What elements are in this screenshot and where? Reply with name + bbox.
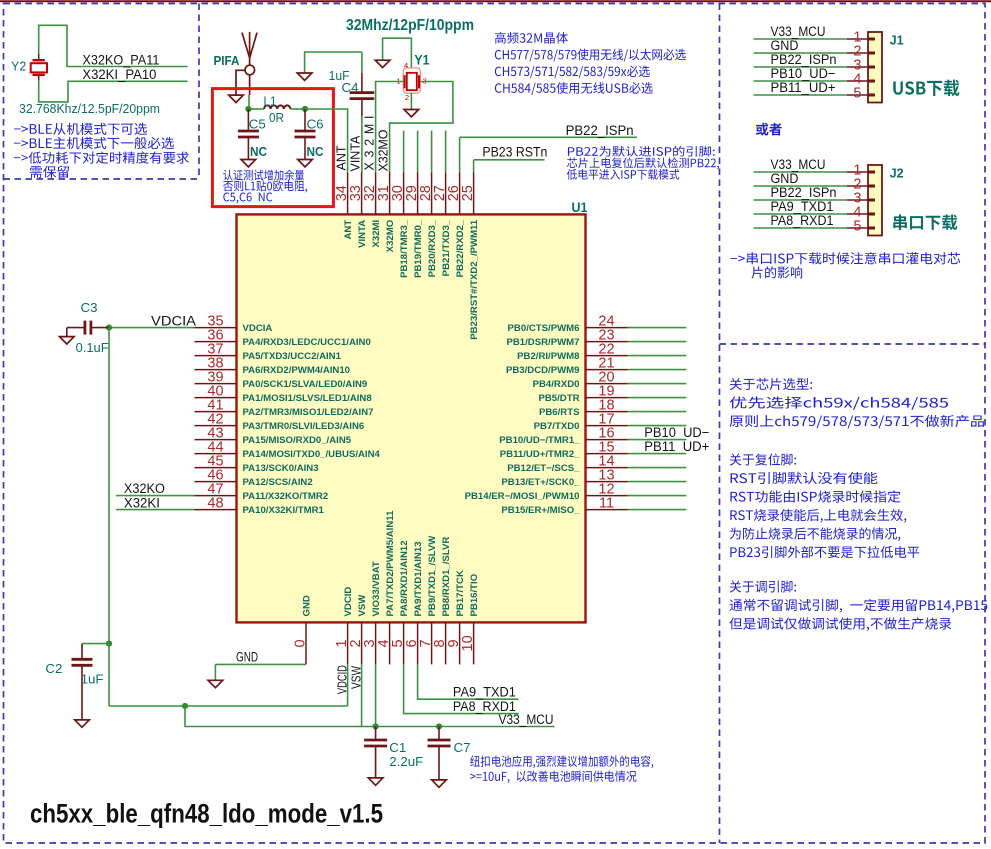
- svg-text:NC: NC: [250, 144, 268, 159]
- capacitor C3: [67, 327, 85, 329]
- wire stub pin 27: [445, 131, 447, 173]
- pin 36 PA4/RXD3/LEDC/UCC1/AIN0: [195, 341, 237, 343]
- pin 7 PB9/TXD1_/SLVW: [431, 622, 433, 664]
- svg-text:C3: C3: [81, 300, 98, 315]
- pin 5 J2 PA8_RXD1: [847, 219, 875, 235]
- pin 27 PB21/TXD3_: [445, 172, 447, 214]
- svg-text:PA11/X32KO/TMR2: PA11/X32KO/TMR2: [243, 491, 329, 502]
- wire to C2: [82, 643, 109, 645]
- wire X32KI: [116, 509, 194, 511]
- svg-text:VSW: VSW: [348, 665, 363, 689]
- svg-text:PA8_RXD1: PA8_RXD1: [453, 699, 516, 714]
- svg-text:PB1/DSR/PWM7: PB1/DSR/PWM7: [506, 337, 579, 348]
- svg-text:VSW: VSW: [357, 594, 368, 617]
- svg-text:X32KO: X32KO: [124, 481, 165, 496]
- connector J2: [868, 165, 882, 236]
- svg-text:U1: U1: [572, 200, 588, 215]
- svg-text:VINTA: VINTA: [348, 135, 362, 172]
- svg-text:PA9_TXD1: PA9_TXD1: [453, 685, 516, 700]
- wire pin 14: [628, 467, 687, 469]
- wire VINTA: [361, 116, 363, 172]
- note chip selection line5: [731, 472, 878, 484]
- wire pin 23: [628, 341, 687, 343]
- svg-text:PB3/DCD/PWM9: PB3/DCD/PWM9: [506, 365, 580, 376]
- svg-text:J2: J2: [890, 165, 904, 180]
- svg-text:PB9/TXD1_/SLVW: PB9/TXD1_/SLVW: [427, 535, 438, 617]
- svg-text:11: 11: [599, 495, 614, 511]
- pin 19 PB5/DTR: [586, 397, 628, 399]
- svg-text:PB11/UD+/TMR2_: PB11/UD+/TMR2_: [500, 449, 580, 460]
- svg-text:PA4/RXD3/LEDC/UCC1/AIN0: PA4/RXD3/LEDC/UCC1/AIN0: [243, 337, 371, 348]
- pin 4 J2 PA9_TXD1: [847, 205, 875, 221]
- label USB download: [893, 80, 959, 97]
- svg-text:VDCID: VDCID: [343, 587, 354, 617]
- ground Y1 top: [375, 60, 390, 67]
- capacitor C2: [81, 644, 83, 660]
- wire pin 11: [628, 509, 687, 511]
- wire stub pin 29: [417, 131, 419, 173]
- note chip selection line11: [730, 599, 988, 613]
- svg-text:ch5xx_ble_qfn48_ldo_mode_v1.5: ch5xx_ble_qfn48_ldo_mode_v1.5: [30, 799, 383, 829]
- svg-text:PA15/MISO/RXD0_/AIN5: PA15/MISO/RXD0_/AIN5: [243, 435, 352, 446]
- wire J1 PB22_ISPn: [754, 66, 847, 68]
- svg-text:C5: C5: [249, 117, 266, 132]
- svg-text:PIFA: PIFA: [214, 54, 240, 68]
- svg-text:GND: GND: [771, 171, 799, 186]
- pin 0 GND: [305, 622, 307, 664]
- net label V33_MCU (J2): [771, 157, 826, 172]
- wire X32MO: [390, 82, 453, 173]
- svg-text:PA12/SCS/AIN2: PA12/SCS/AIN2: [243, 477, 313, 488]
- right column dashed divider: [719, 4, 721, 844]
- wire pin 15: [628, 453, 687, 455]
- svg-text:PB14/ER−/MOSI_/PWM10: PB14/ER−/MOSI_/PWM10: [465, 491, 580, 502]
- wire pin 18: [628, 411, 687, 413]
- node antenna junction: [245, 106, 251, 112]
- capacitor C5: [247, 109, 249, 131]
- note BLE modes line4: [30, 166, 69, 178]
- capacitor C1: [375, 727, 377, 741]
- svg-text:0R: 0R: [269, 110, 284, 125]
- wire pin 13: [628, 481, 687, 483]
- connector J1: [868, 32, 882, 103]
- svg-text:PA9_TXD1: PA9_TXD1: [771, 199, 834, 214]
- svg-text:VDCID: VDCID: [334, 665, 349, 694]
- note chip selection line4: [730, 453, 796, 465]
- svg-text:PB20/RXD3_: PB20/RXD3_: [427, 219, 438, 277]
- pin 28 PB20/RXD3_: [431, 172, 433, 214]
- svg-text:X32KI_PA10: X32KI_PA10: [82, 67, 156, 82]
- svg-text:PB6/RTS: PB6/RTS: [539, 407, 580, 418]
- ground C5: [241, 160, 256, 167]
- note cert test line1: [223, 169, 304, 180]
- wire J1 PB10_UD−: [754, 80, 847, 82]
- svg-text:X32MI: X32MI: [362, 116, 376, 171]
- svg-text:J1: J1: [890, 32, 904, 47]
- wire pin 12: [628, 495, 687, 497]
- svg-text:PB4/RXD0: PB4/RXD0: [533, 379, 580, 390]
- svg-text:PB13/ET+/SCK0_: PB13/ET+/SCK0_: [501, 477, 580, 488]
- note cert test line3: [223, 192, 272, 203]
- svg-text:5: 5: [853, 219, 861, 235]
- note 32M crystal line1: [495, 32, 568, 44]
- svg-text:10: 10: [460, 635, 476, 651]
- crystal Y1: [403, 68, 420, 93]
- svg-text:GND: GND: [771, 38, 799, 53]
- note ISP pin line2: [567, 157, 719, 169]
- pin 34 ANT: [347, 172, 349, 214]
- wire J1 PB11_UD+: [754, 94, 847, 96]
- pin 38 PA6/RXD2/PWM4/AIN10: [195, 369, 237, 371]
- capacitor C7: [438, 727, 440, 741]
- right column dashed horizontal divider: [720, 343, 986, 345]
- pin 2 VSW: [361, 622, 363, 664]
- wire pin 24: [628, 327, 687, 329]
- wire VDC rail vertical: [108, 328, 110, 706]
- pin 3 VIO33/VBAT: [375, 622, 377, 664]
- note battery line2: [470, 771, 636, 784]
- svg-text:X32KI: X32KI: [124, 495, 160, 510]
- svg-text:C1: C1: [389, 740, 406, 755]
- note chip selection line1: [730, 378, 812, 390]
- svg-text:PA0/SCK1/SLVA/LED0/AIN9: PA0/SCK1/SLVA/LED0/AIN9: [243, 379, 368, 390]
- wire pin 19: [628, 397, 687, 399]
- pin 37 PA5/TXD3/UCC2/AIN1: [195, 355, 237, 357]
- svg-text:PB17/TCK: PB17/TCK: [455, 570, 466, 616]
- svg-text:PA1/MOSI1/SLVS/LED1/AIN8: PA1/MOSI1/SLVS/LED1/AIN8: [243, 393, 373, 404]
- emphasis box: [212, 89, 333, 207]
- wire J1 GND: [754, 52, 847, 54]
- wire stub pin 30: [403, 131, 405, 173]
- note 32M crystal line3: [495, 65, 650, 78]
- svg-text:2: 2: [405, 93, 409, 102]
- pin 48 PA10/X32KI/TMR1: [195, 509, 237, 511]
- svg-text:X32MO: X32MO: [385, 219, 396, 252]
- svg-text:ANT: ANT: [334, 145, 348, 170]
- svg-text:PA5/TXD3/UCC2/AIN1: PA5/TXD3/UCC2/AIN1: [243, 351, 342, 362]
- capacitor C6: [304, 109, 306, 131]
- svg-text:VDCIA: VDCIA: [243, 323, 273, 334]
- ground C2: [75, 720, 90, 727]
- wire PB23 RSTn: [473, 160, 475, 173]
- wire VDCID rail: [109, 705, 348, 707]
- svg-text:PB22_ISPn: PB22_ISPn: [771, 52, 837, 67]
- pin 22 PB2/RI/PWM8: [586, 355, 628, 357]
- svg-text:GND: GND: [301, 595, 312, 616]
- svg-text:V33_MCU: V33_MCU: [771, 157, 826, 172]
- pin 16 PB10/UD−/TMR1_: [586, 439, 628, 441]
- note chip selection line3: [730, 415, 984, 429]
- pin 30 PB18/TMR3_: [403, 172, 405, 214]
- svg-text:PB11_UD+: PB11_UD+: [771, 80, 836, 95]
- svg-text:PA8/RXD1/AIN12: PA8/RXD1/AIN12: [399, 540, 410, 616]
- pin 13 PB13/ET+/SCK0_: [586, 481, 628, 483]
- net label PB11_UD+ (J1): [771, 80, 836, 95]
- svg-text:PA10/X32KI/TMR1: PA10/X32KI/TMR1: [243, 505, 325, 516]
- svg-text:C4: C4: [342, 80, 359, 95]
- wire X32MI: [376, 82, 404, 173]
- pin 42 PA3/TMR0/SLVI/LED3/AIN6: [195, 425, 237, 427]
- wire J2 PA9_TXD1: [754, 213, 847, 215]
- svg-text:PA3/TMR0/SLVI/LED3/AIN6: PA3/TMR0/SLVI/LED3/AIN6: [243, 421, 365, 432]
- pin 3 J2 PB22_ISPn: [847, 191, 875, 207]
- svg-text:NC: NC: [307, 144, 325, 159]
- net label PB10_UD− (J1): [771, 66, 836, 81]
- svg-text:PB22_ISPn: PB22_ISPn: [566, 123, 634, 138]
- svg-text:L1: L1: [264, 93, 277, 108]
- pin 41 PA2/TMR3/MISO1/LED2/AIN7: [195, 411, 237, 413]
- wire pin 22: [628, 355, 687, 357]
- node L1 out junction: [302, 106, 308, 112]
- svg-text:PB12/ET−/SCS_: PB12/ET−/SCS_: [507, 463, 580, 474]
- ground C7: [432, 780, 447, 787]
- note BLE modes line2: [14, 137, 174, 149]
- note box Y2 dashed bottom edge: [4, 178, 200, 180]
- note ISP pin line1: [568, 146, 715, 157]
- label serial download: [893, 214, 957, 230]
- net label PA8_RXD1 (J2): [771, 213, 834, 228]
- wire J2 GND: [754, 185, 847, 187]
- note BLE modes line1: [14, 123, 147, 135]
- wire VSW path: [185, 706, 362, 727]
- wire Y2 bottom to X32KI_PA10: [39, 81, 188, 102]
- pin 15 PB11/UD+/TMR2_: [586, 453, 628, 455]
- IC U1 body: [237, 214, 586, 622]
- svg-text:Y1: Y1: [414, 52, 429, 67]
- ground C4 left: [297, 73, 312, 80]
- note cert test line2: [223, 180, 307, 192]
- note battery line1: [470, 755, 653, 768]
- svg-text:V33_MCU: V33_MCU: [771, 24, 826, 39]
- svg-text:2.2uF: 2.2uF: [389, 754, 423, 769]
- wire ANT net: [305, 109, 348, 172]
- svg-text:1uF: 1uF: [81, 671, 104, 686]
- svg-text:PB8/RXD1_/SLVR: PB8/RXD1_/SLVR: [441, 537, 452, 617]
- note chip selection line12: [729, 617, 951, 631]
- pin 31 X32MO: [389, 172, 391, 214]
- wire pin 21: [628, 369, 687, 371]
- note 32M crystal line2: [495, 49, 686, 62]
- pin 4 PA7/TXD2/PWM5/AIN11: [389, 622, 391, 664]
- pin 46 PA12/SCS/AIN2: [195, 481, 237, 483]
- wire J2 PA8_RXD1: [754, 227, 847, 229]
- pin 24 PB0/CTS/PWM6: [586, 327, 628, 329]
- pin 25 PB23/RST#/TXD2_/PWM11: [473, 172, 475, 214]
- pin 18 PB6/RTS: [586, 411, 628, 413]
- svg-text:VINTA: VINTA: [357, 220, 368, 248]
- svg-text:PB21/TXD3_: PB21/TXD3_: [441, 219, 452, 276]
- note chip selection line7: [730, 509, 906, 523]
- svg-text:Y2: Y2: [11, 60, 26, 74]
- note chip selection line8: [730, 527, 901, 541]
- pin 6 PA9/TXD1/AIN13: [417, 622, 419, 664]
- svg-text:PB10_UD−: PB10_UD−: [771, 66, 836, 81]
- svg-text:GND: GND: [236, 650, 258, 665]
- svg-text:0.1uF: 0.1uF: [76, 340, 109, 355]
- pin 26 PB22/RXD2_: [459, 172, 461, 214]
- wire pin 20: [628, 383, 687, 385]
- pin 1 J2 V33_MCU: [847, 163, 875, 179]
- svg-text:48: 48: [207, 495, 223, 511]
- svg-text:PB22_ISPn: PB22_ISPn: [771, 185, 837, 200]
- net label PB22_ISPn (J1): [771, 52, 837, 67]
- pin 5 PA8/RXD1/AIN12: [403, 622, 405, 664]
- pin 44 PA14/MOSI/TXD0_/UBUS/AIN4: [195, 453, 237, 455]
- net label GND (J2): [771, 171, 799, 186]
- ground antenna feed: [229, 95, 244, 102]
- note 32M crystal line4: [495, 82, 653, 95]
- pin 1 VDCID: [347, 622, 349, 664]
- pin 2 J2 GND: [847, 177, 875, 193]
- svg-text:PA2/TMR3/MISO1/LED2/AIN7: PA2/TMR3/MISO1/LED2/AIN7: [243, 407, 374, 418]
- pin 4 J1 PB10_UD−: [847, 72, 875, 88]
- node VSW junction: [182, 703, 188, 709]
- svg-text:C2: C2: [45, 661, 62, 676]
- svg-text:PB22/RXD2_: PB22/RXD2_: [455, 219, 466, 277]
- pin 1 J1 V33_MCU: [847, 30, 875, 46]
- node C7 junction: [436, 723, 442, 729]
- pin 39 PA0/SCK1/SLVA/LED0/AIN9: [195, 383, 237, 385]
- wire PB22_ISPn: [459, 137, 461, 172]
- ground C1: [368, 778, 383, 785]
- wire VDCIA: [109, 327, 195, 329]
- wire J1 V33_MCU: [754, 38, 847, 40]
- node VDCIA junction: [106, 325, 112, 331]
- svg-text:4: 4: [404, 61, 408, 70]
- wire PA8_RXD1: [404, 664, 519, 713]
- wire stub pin 28: [431, 131, 433, 173]
- pin 14 PB12/ET−/SCS_: [586, 467, 628, 469]
- ground Y1 bottom: [404, 110, 419, 117]
- svg-text:ANT: ANT: [343, 220, 354, 240]
- wire VINTA decouple: [305, 52, 362, 73]
- wire V33 rail: [362, 726, 555, 728]
- wire PA9_TXD1: [418, 664, 519, 699]
- note box Y2 dashed right edge: [198, 4, 200, 180]
- net label V33_MCU (J1): [771, 24, 826, 39]
- pin 47 PA11/X32KO/TMR2: [195, 495, 237, 497]
- svg-text:X32MI: X32MI: [371, 219, 382, 247]
- wire X32KO: [116, 495, 194, 497]
- svg-text:PB11_UD+: PB11_UD+: [644, 439, 709, 454]
- pin 43 PA15/MISO/RXD0_/AIN5: [195, 439, 237, 441]
- pin 9 PB17/TCK: [459, 622, 461, 664]
- pin 45 PA13/SCK0/AIN3: [195, 467, 237, 469]
- wire Y2 top to X32KO_PA11: [39, 25, 188, 66]
- svg-text:C6: C6: [307, 117, 324, 132]
- antenna PIFA: [242, 33, 249, 58]
- svg-text:PA7/TXD2/PWM5/AIN11: PA7/TXD2/PWM5/AIN11: [385, 510, 396, 617]
- note ISP pin line3: [567, 169, 679, 180]
- pin 10 PB16/TIO: [473, 622, 475, 664]
- pin 17 PB7/TXD0: [586, 425, 628, 427]
- wire GND pin0: [215, 663, 306, 665]
- net label PA9_TXD1 (J2): [771, 199, 834, 214]
- svg-text:PB0/CTS/PWM6: PB0/CTS/PWM6: [508, 323, 580, 334]
- note serial ISP line1: [730, 252, 960, 264]
- sheet top edge: [0, 0, 991, 2]
- note BLE modes line3: [14, 151, 189, 163]
- pin 11 PB15/ER+/MISO_: [586, 509, 628, 511]
- wire pin 17: [628, 425, 687, 427]
- wire Y1 pin2 to ground: [410, 93, 412, 110]
- svg-text:PB5/DTR: PB5/DTR: [538, 393, 579, 404]
- pin 5 J1 PB11_UD+: [847, 86, 875, 102]
- svg-text:PB16/TIO: PB16/TIO: [469, 573, 480, 616]
- svg-text:C7: C7: [454, 740, 471, 755]
- wire antenna to L1: [248, 95, 250, 109]
- wire J2 V33_MCU: [754, 171, 847, 173]
- pin 20 PB4/RXD0: [586, 383, 628, 385]
- node C2 junction: [106, 641, 112, 647]
- crystal Y2: [31, 63, 47, 72]
- svg-text:PB10/UD−/TMR1_: PB10/UD−/TMR1_: [499, 435, 580, 446]
- note chip selection line10: [730, 580, 796, 592]
- pin 8 PB8/RXD1_/SLVR: [445, 622, 447, 664]
- svg-text:PB23 RSTn: PB23 RSTn: [482, 145, 547, 160]
- svg-text:25: 25: [460, 185, 476, 201]
- pin 23 PB1/DSR/PWM7: [586, 341, 628, 343]
- svg-text:PB7/TXD0: PB7/TXD0: [534, 421, 580, 432]
- svg-text:PB19/TMR0_: PB19/TMR0_: [413, 219, 424, 278]
- ground C6: [298, 160, 313, 167]
- pin 33 VINTA: [361, 172, 363, 214]
- net label GND (J1): [771, 38, 799, 53]
- svg-text:32Mhz/12pF/10ppm: 32Mhz/12pF/10ppm: [346, 17, 474, 34]
- note chip selection line9: [730, 546, 919, 558]
- pin 40 PA1/MOSI1/SLVS/LED1/AIN8: [195, 397, 237, 399]
- ground GND net: [214, 664, 216, 680]
- pin 32 X32MI: [375, 172, 377, 214]
- wire Y1 pin4 to ground: [383, 38, 412, 68]
- wire pin 16: [628, 439, 687, 441]
- note or: [756, 123, 782, 136]
- svg-text:X32MO: X32MO: [376, 129, 390, 171]
- inductor L1: [264, 105, 290, 109]
- svg-text:VDCIA: VDCIA: [151, 313, 196, 328]
- svg-text:32.768Khz/12.5pF/20ppm: 32.768Khz/12.5pF/20ppm: [19, 101, 160, 116]
- pin 29 PB19/TMR0_: [417, 172, 419, 214]
- svg-text:5: 5: [853, 86, 861, 102]
- svg-text:PB10_UD−: PB10_UD−: [644, 425, 709, 440]
- ground C3: [66, 328, 68, 337]
- note chip selection line2: [730, 396, 948, 409]
- svg-text:X32KO_PA11: X32KO_PA11: [82, 52, 159, 67]
- pin 21 PB3/DCD/PWM9: [586, 369, 628, 371]
- node C1 junction: [373, 723, 379, 729]
- svg-text:PA14/MOSI/TXD0_/UBUS/AIN4: PA14/MOSI/TXD0_/UBUS/AIN4: [243, 449, 381, 460]
- pin 35 VDCIA: [195, 327, 237, 329]
- wire J2 PB22_ISPn: [754, 199, 847, 201]
- svg-text:PA6/RXD2/PWM4/AIN10: PA6/RXD2/PWM4/AIN10: [243, 365, 351, 376]
- svg-text:PA13/SCK0/AIN3: PA13/SCK0/AIN3: [243, 463, 319, 474]
- pin 12 PB14/ER−/MOSI_/PWM10: [586, 495, 628, 497]
- svg-text:VIO33/VBAT: VIO33/VBAT: [371, 561, 382, 616]
- svg-text:PA8_RXD1: PA8_RXD1: [771, 213, 834, 228]
- pin 3 J1 PB22_ISPn: [847, 58, 875, 74]
- svg-text:0: 0: [293, 639, 309, 647]
- capacitor C4: [361, 73, 363, 93]
- svg-text:PB23/RST#/TXD2_/PWM11: PB23/RST#/TXD2_/PWM11: [469, 219, 480, 340]
- pin 2 J1 GND: [847, 44, 875, 60]
- svg-text:PB15/ER+/MISO_: PB15/ER+/MISO_: [501, 505, 580, 516]
- net label PB22_ISPn (J2): [771, 185, 837, 200]
- note serial ISP line2: [751, 266, 802, 278]
- svg-text:PB18/TMR3_: PB18/TMR3_: [399, 219, 410, 278]
- svg-text:PA9/TXD1/AIN13: PA9/TXD1/AIN13: [413, 542, 424, 617]
- svg-text:PB2/RI/PWM8: PB2/RI/PWM8: [517, 351, 580, 362]
- note chip selection line6: [730, 490, 900, 502]
